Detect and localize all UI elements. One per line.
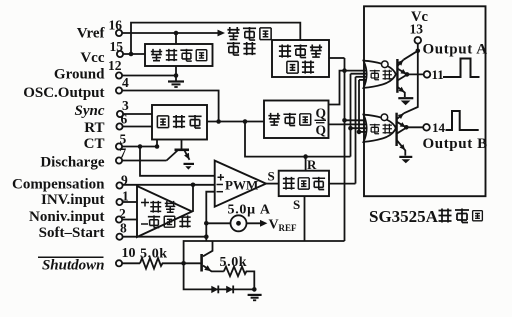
svg-text:Soft–Start: Soft–Start xyxy=(39,225,105,241)
shutdown transistor base bar xyxy=(200,254,203,272)
arrow to internal circuit xyxy=(218,30,226,37)
5.0uA current source xyxy=(206,203,271,232)
wire NOR A input L4 from bus D xyxy=(359,79,371,81)
pin 1 terminal xyxy=(116,199,122,205)
label 接内部 (connect internal) xyxy=(227,27,271,40)
bus B vertical (blanking) xyxy=(350,74,352,157)
oscillator box 振荡器 xyxy=(152,105,207,140)
reference supply box 基准电源 xyxy=(145,44,213,66)
output stage outer box xyxy=(364,6,486,196)
node: compensation / error amp output junction xyxy=(191,183,196,188)
svg-text:12: 12 xyxy=(108,58,122,73)
pin 11 terminal xyxy=(424,71,431,78)
pin 3 terminal xyxy=(117,111,123,117)
svg-text:PWM: PWM xyxy=(225,178,258,193)
svg-text:Vcc: Vcc xyxy=(80,50,104,66)
latch box 锁存器 xyxy=(279,171,329,196)
pin 13 terminal xyxy=(415,37,422,44)
wire pin12 Ground to reference box bottom xyxy=(122,75,176,77)
resistor R1 5.0k zigzag xyxy=(140,258,184,269)
wire shutdown common rail y=241 xyxy=(184,241,345,263)
wire pin9 Compensation to PWM inverting input xyxy=(123,184,215,186)
svg-text:Vref: Vref xyxy=(77,26,106,42)
svg-text:REF: REF xyxy=(279,223,298,233)
wire flip-flop Qbar to NOR B input xyxy=(329,123,371,125)
wire Vc rail down xyxy=(404,44,418,114)
ground at totem A xyxy=(398,97,413,99)
diode D1 xyxy=(211,286,218,294)
pin 7 terminal xyxy=(116,157,122,163)
wire pin6 RT to oscillator xyxy=(123,126,152,128)
svg-text:Output A: Output A xyxy=(423,42,488,58)
wire R input from blanking line xyxy=(305,157,307,171)
node: junction pin4 / oscillator output xyxy=(216,119,221,124)
pin 6 terminal xyxy=(116,123,122,129)
ground at discharge transistor xyxy=(184,163,195,165)
wire oscillator output to flip-flop xyxy=(207,121,264,123)
pin 2 terminal xyxy=(116,216,122,222)
svg-text:INV.input: INV.input xyxy=(41,192,105,208)
wire NOR A input L3 from bus C xyxy=(356,76,371,78)
arrow on totem B bottom transistor emitter xyxy=(400,144,406,150)
wire reference box top tap xyxy=(175,33,177,44)
svg-text:Sync: Sync xyxy=(75,103,105,119)
totem pole B transistors xyxy=(396,113,406,156)
node: output B junction xyxy=(404,125,409,130)
NOR gate A 或非 xyxy=(364,61,396,88)
svg-text:10: 10 xyxy=(122,246,136,261)
node: junction ground line / reference box bottom xyxy=(174,73,179,78)
caption SG3525A 输出级 xyxy=(369,207,482,226)
svg-text:SG3525A: SG3525A xyxy=(369,207,439,226)
wire pin15 Vcc to reference box xyxy=(123,53,145,55)
svg-text:Output B: Output B xyxy=(423,136,488,152)
waveform B xyxy=(446,111,479,130)
diode D2 xyxy=(226,286,233,294)
svg-text:Ground: Ground xyxy=(54,67,105,83)
svg-text:S: S xyxy=(268,169,275,184)
bus A vertical (UV / shutdown) xyxy=(344,58,346,241)
svg-text:V: V xyxy=(269,218,279,233)
error amplifier 误差放大器 xyxy=(137,186,192,237)
pin 15 terminal xyxy=(117,51,123,57)
node: junction Vref line / reference box xyxy=(174,31,179,36)
node: soft-start junction xyxy=(204,234,209,239)
waveform A xyxy=(443,59,480,78)
node: output A junction xyxy=(405,72,410,77)
node: Vc junction xyxy=(416,49,421,54)
node: blanking / R junction xyxy=(303,154,308,159)
discharge transistor emitter arrow xyxy=(184,153,189,160)
wire NOR B input B4 from bus D xyxy=(359,131,370,133)
wire to pin 14 xyxy=(406,126,423,128)
pin 16 terminal xyxy=(116,30,122,36)
wire pin2 Noniv.input to error amp xyxy=(122,219,137,221)
svg-text:Compensation: Compensation xyxy=(12,177,105,193)
wire to pin 11 xyxy=(407,73,424,75)
wire clock branch down and right (blanking) to bus xyxy=(245,122,351,157)
arrow on top transistor emitter xyxy=(400,69,406,74)
wire reference box bottom to ground xyxy=(175,66,177,81)
svg-text:S: S xyxy=(293,197,300,212)
svg-text:5.0k: 5.0k xyxy=(220,255,248,270)
wire collector of top NPN to Vc node xyxy=(404,51,418,60)
wire node A down to diode line xyxy=(184,263,255,289)
shutdown transistor emitter arrow xyxy=(204,265,211,271)
wire pin4 OSC.Output over and down to oscillator output xyxy=(122,91,219,122)
wire latch S output from PWM apex xyxy=(266,183,279,185)
svg-text:4: 4 xyxy=(122,75,129,90)
wire pin5 CT xyxy=(122,146,157,148)
bus C vertical (latch out) xyxy=(355,77,357,184)
wire pin16 Vref to internal-circuit arrow xyxy=(122,32,218,34)
node: bus A / B1 junction xyxy=(342,118,347,123)
svg-text:Q: Q xyxy=(316,123,327,138)
pin 10 terminal xyxy=(116,260,122,266)
node diode/ground junction xyxy=(252,287,257,292)
svg-text:5.0μ A: 5.0μ A xyxy=(228,203,271,218)
pin 4 terminal xyxy=(116,87,122,93)
undervoltage lockout box 欠电压锁定 xyxy=(272,40,329,77)
label 电路 (circuit) xyxy=(227,42,256,55)
wire latch output to bus C xyxy=(329,183,356,185)
svg-text:CT: CT xyxy=(84,136,105,152)
wire NOR A input L2 from bus B xyxy=(351,73,371,75)
pin 12 terminal xyxy=(116,72,122,78)
wire flip-flop Q up to NOR A input L1 xyxy=(329,71,370,105)
bus D vertical xyxy=(358,80,360,132)
ground under reference box xyxy=(168,82,184,88)
ground at totem B xyxy=(399,156,412,158)
node: CT junction to PWM xyxy=(138,144,143,149)
wire pin1 INV.input to error amp xyxy=(123,201,137,203)
wire pin7 Discharge xyxy=(122,160,166,162)
wire Vcc top rail: vertical at x131, horizontal y22.6, down into UV lockout xyxy=(131,23,300,54)
svg-text:14: 14 xyxy=(432,120,446,135)
wire latch S input down xyxy=(304,196,306,241)
node: bus A / L1 junction xyxy=(342,68,347,73)
svg-text:11: 11 xyxy=(432,67,444,82)
NOR gate B 或非 xyxy=(364,114,396,142)
svg-text:Noniv.input: Noniv.input xyxy=(29,209,104,225)
node: bus D / B4 junction xyxy=(357,130,362,135)
svg-text:OSC.Output: OSC.Output xyxy=(23,85,104,101)
wire NOR B input B1 from bus A xyxy=(345,119,370,121)
svg-text:13: 13 xyxy=(410,22,424,37)
wire pin8 Soft-Start xyxy=(123,236,207,238)
shutdown transistor collector xyxy=(203,241,213,256)
wire pin3 Sync to oscillator xyxy=(123,113,152,115)
node: CT junction to oscillator xyxy=(155,144,160,149)
pin 14 terminal xyxy=(423,124,430,131)
pin 5 terminal xyxy=(116,143,122,149)
svg-text:R: R xyxy=(307,157,317,172)
wire NOR B input B3 from bus B xyxy=(351,127,371,129)
arrow on top transistor collector xyxy=(398,60,404,66)
wire node A to shutdown transistor base xyxy=(184,262,202,264)
node: clock branch junction xyxy=(243,119,248,124)
svg-text:Shutdown: Shutdown xyxy=(42,258,105,274)
node: 5uA source junction xyxy=(204,221,209,226)
pin 8 terminal xyxy=(116,234,122,240)
svg-text:Q: Q xyxy=(316,106,327,121)
wire CT ramp down and right to PWM + input xyxy=(140,147,215,176)
arrow on totem B top transistor emitter xyxy=(400,122,406,127)
discharge transistor xyxy=(167,140,190,161)
node A shutdown junction xyxy=(181,261,186,266)
arrow on bottom transistor emitter xyxy=(399,87,405,93)
ground at diode line xyxy=(248,295,262,300)
node: bus B / B3 junction xyxy=(348,126,353,131)
shutdown transistor emitter xyxy=(203,266,224,272)
wire error amp output up to compensation line xyxy=(192,185,194,212)
svg-text:Discharge: Discharge xyxy=(40,155,104,171)
resistor R2 5.0k zigzag xyxy=(224,267,255,290)
label VREF xyxy=(269,218,298,234)
PWM comparator xyxy=(215,161,266,207)
wire UV lockout output to bus A xyxy=(329,57,345,59)
svg-text:RT: RT xyxy=(84,120,104,136)
wire pin10 Shutdown to resistor xyxy=(122,262,140,264)
arrow on totem B top transistor collector xyxy=(398,114,404,120)
wire 5uA node vertical to PWM second minus input xyxy=(206,192,214,241)
pin 9 terminal xyxy=(116,182,122,188)
wire CT tap up to oscillator bottom xyxy=(156,140,158,147)
node: junction Vcc vertical xyxy=(129,52,134,57)
totem pole A transistors xyxy=(396,59,407,97)
svg-text:5.0k: 5.0k xyxy=(140,247,168,262)
flip-flop box 触发器 xyxy=(264,101,329,139)
